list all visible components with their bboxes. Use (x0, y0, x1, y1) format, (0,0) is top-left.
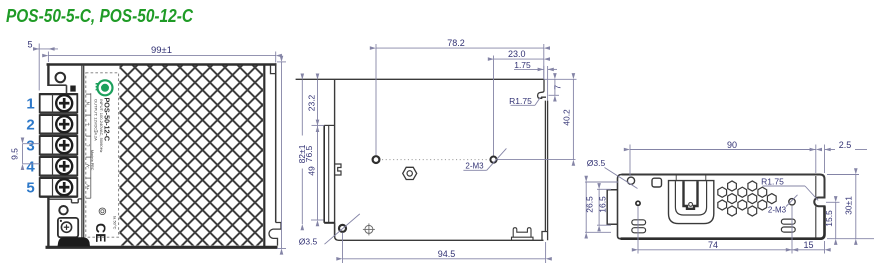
svg-text:15: 15 (803, 240, 813, 250)
svg-text:78.2: 78.2 (447, 38, 465, 48)
svg-text:CE: CE (93, 223, 109, 242)
svg-text:1: 1 (26, 95, 34, 112)
svg-text:1.75: 1.75 (514, 60, 531, 70)
svg-text:Madein PRC: Madein PRC (90, 150, 94, 171)
svg-text:94.5: 94.5 (438, 249, 456, 259)
svg-text:OUTPUT: 12VDC⍐4.2A: OUTPUT: 12VDC⍐4.2A (94, 99, 99, 141)
svg-text:N: N (86, 102, 91, 105)
svg-text:R1.75: R1.75 (509, 96, 532, 106)
svg-text:L: L (86, 143, 91, 146)
svg-text:30±1: 30±1 (844, 196, 854, 215)
svg-text:2: 2 (26, 116, 34, 133)
svg-text:23.0: 23.0 (508, 49, 526, 59)
svg-text:90: 90 (727, 140, 737, 150)
svg-text:40.2: 40.2 (562, 109, 572, 126)
svg-text:Ø3.5: Ø3.5 (587, 158, 606, 168)
svg-text:5: 5 (27, 40, 32, 50)
svg-text:POS-50-5-C, POS-50-12-C: POS-50-5-C, POS-50-12-C (6, 5, 194, 26)
svg-text:99±1: 99±1 (151, 45, 172, 56)
svg-text:-V: -V (86, 164, 91, 169)
svg-text:4: 4 (26, 158, 35, 175)
svg-text:R1.75: R1.75 (761, 176, 784, 186)
svg-text:7: 7 (552, 85, 562, 90)
svg-text:15.5: 15.5 (824, 210, 834, 227)
svg-text:9.5: 9.5 (10, 148, 20, 160)
svg-text:49: 49 (307, 166, 317, 176)
svg-text:Ø3.5: Ø3.5 (299, 237, 318, 247)
svg-text:2-M3: 2-M3 (768, 206, 787, 215)
svg-text:2-M3: 2-M3 (465, 162, 484, 171)
svg-text:5: 5 (26, 179, 34, 196)
svg-text:16.5: 16.5 (598, 196, 608, 213)
svg-text:ta 50°C: ta 50°C (112, 216, 117, 229)
svg-text:26.5: 26.5 (585, 196, 595, 213)
svg-text:3: 3 (26, 137, 34, 154)
svg-text:⏚: ⏚ (85, 122, 91, 127)
svg-text:74: 74 (708, 240, 718, 250)
svg-text:+V: +V (86, 184, 91, 190)
svg-text:76.5: 76.5 (304, 145, 314, 162)
svg-text:2.5: 2.5 (839, 140, 852, 150)
svg-text:23.2: 23.2 (307, 94, 317, 111)
